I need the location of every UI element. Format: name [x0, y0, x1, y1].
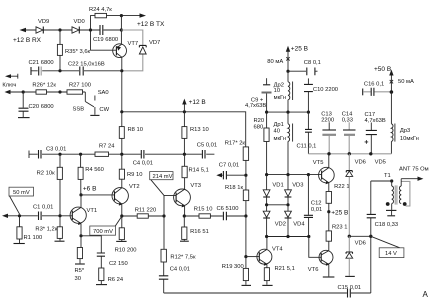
- node zener mid: [348, 235, 351, 238]
- svg-text:C2 150: C2 150: [109, 261, 128, 267]
- node VD1 top: [265, 173, 268, 176]
- svg-text:C11 0,1: C11 0,1: [297, 144, 317, 150]
- terminal ANT output: [399, 167, 429, 181]
- capacitor C7: [219, 163, 246, 180]
- svg-text:VD6: VD6: [355, 240, 366, 246]
- wire output top rail: [308, 153, 391, 155]
- svg-text:VD7: VD7: [149, 40, 160, 46]
- node +25V: [286, 70, 289, 73]
- svg-text:VT1: VT1: [87, 208, 98, 214]
- box 700 mV: [90, 216, 122, 235]
- node rail-R8bottom: [120, 153, 123, 156]
- svg-text:C1 0,01: C1 0,01: [33, 205, 53, 211]
- node +25V out: [327, 210, 330, 213]
- wire VT6 base L: [309, 237, 321, 258]
- resistor R8: [119, 112, 143, 154]
- svg-text:мкГн: мкГн: [274, 95, 287, 101]
- svg-text:VD3: VD3: [292, 183, 303, 189]
- svg-text:VT4: VT4: [272, 247, 283, 253]
- svg-text:C18 0,33: C18 0,33: [375, 222, 399, 228]
- resistor R17*: [225, 141, 249, 176]
- wire VT2 base: [81, 194, 115, 196]
- svg-text:4,7x63В: 4,7x63В: [245, 103, 266, 109]
- svg-text:R26* 12к: R26* 12к: [32, 83, 56, 89]
- wire VT3 base: [164, 195, 176, 216]
- inductor Dr1: [274, 112, 293, 175]
- node VD3 top: [286, 173, 289, 176]
- wire diode matrix top: [267, 174, 322, 176]
- node VT5 collector: [327, 152, 330, 155]
- svg-text:VT6: VT6: [308, 267, 319, 273]
- node R1: [18, 214, 21, 217]
- svg-text:R16 51: R16 51: [190, 229, 209, 235]
- node VT3 emitter row: [183, 214, 186, 217]
- svg-text:40: 40: [274, 129, 280, 135]
- node C21-C22: [58, 69, 61, 72]
- svg-text:C16 0,1: C16 0,1: [364, 81, 384, 87]
- resistor R23: [326, 212, 347, 251]
- capacitor C3: [39, 147, 67, 159]
- resistor R26*: [23, 83, 60, 95]
- svg-text:C5 0,01: C5 0,01: [197, 143, 217, 149]
- svg-text:VT5: VT5: [313, 160, 324, 166]
- svg-text:VD0: VD0: [74, 19, 85, 25]
- wire VT7 base from R35 node: [91, 30, 117, 50]
- resistor R12*: [161, 216, 196, 276]
- node rail-R8: [120, 110, 123, 113]
- resistor R19: [222, 257, 251, 286]
- svg-text:R22 1: R22 1: [334, 184, 349, 190]
- svg-text:R20: R20: [254, 118, 265, 124]
- resistor R6: [96, 268, 124, 285]
- svg-text:R23 1: R23 1: [332, 225, 347, 231]
- wire emitter to C2: [81, 236, 101, 253]
- resistor R24: [89, 7, 121, 30]
- svg-text:+25 В: +25 В: [331, 209, 348, 216]
- diode VD2: [263, 205, 286, 237]
- svg-text:C21 6800: C21 6800: [29, 60, 54, 66]
- node +6V: [79, 193, 82, 196]
- svg-text:R12* 7,5к: R12* 7,5к: [170, 255, 196, 261]
- wire VT2 emitter: [121, 204, 123, 216]
- node C10 bottom: [307, 111, 310, 114]
- node rail-R13: [183, 110, 186, 113]
- transistor VT2: [112, 184, 140, 206]
- node rail x60: [58, 153, 61, 156]
- svg-text:C4 0,01: C4 0,01: [133, 161, 153, 167]
- node C6-R18: [244, 214, 247, 217]
- svg-text:R8 10: R8 10: [128, 127, 143, 133]
- capacitor C6: [217, 206, 246, 220]
- wire VT1 collector: [80, 195, 82, 208]
- svg-text:R5*: R5*: [75, 268, 85, 274]
- resistor R22: [326, 183, 349, 212]
- svg-text:А: А: [423, 290, 429, 299]
- transistor VT1: [70, 207, 97, 225]
- svg-text:R15 10: R15 10: [194, 207, 213, 213]
- capacitor C4b: [159, 267, 190, 280]
- capacitor C1: [33, 205, 53, 221]
- node T1 primary top: [390, 179, 393, 182]
- node VT2 emitter row: [120, 214, 123, 217]
- capacitor C15: [338, 285, 362, 298]
- svg-text:R13 10: R13 10: [190, 127, 209, 133]
- capacitor C21: [29, 60, 61, 76]
- svg-text:+12 В: +12 В: [189, 99, 206, 106]
- capacitor C17: [365, 112, 386, 154]
- svg-text:R7 24: R7 24: [99, 144, 115, 150]
- svg-text:мкГн: мкГн: [274, 136, 287, 142]
- svg-text:Ключ: Ключ: [2, 83, 16, 89]
- node +50V: [390, 90, 394, 94]
- svg-text:+6 В: +6 В: [83, 186, 97, 193]
- node C7-R18: [244, 174, 247, 177]
- node C12 bottom: [307, 235, 310, 238]
- svg-text:VT2: VT2: [129, 184, 140, 190]
- node C20: [22, 90, 25, 93]
- transistor VT3: [174, 183, 201, 207]
- svg-text:C4 0,01: C4 0,01: [170, 267, 190, 273]
- wire VT1 base row: [2, 214, 72, 218]
- terminal C7 input: [216, 173, 223, 177]
- svg-text:VD2: VD2: [275, 222, 286, 228]
- capacitor C13: [321, 112, 336, 154]
- resistor R9: [119, 154, 142, 188]
- wire bias rail: [29, 151, 214, 159]
- svg-text:50 mV: 50 mV: [13, 190, 30, 196]
- svg-text:VD1: VD1: [272, 183, 283, 189]
- wire +50V feed: [374, 66, 414, 92]
- resistor R1: [14, 216, 43, 244]
- svg-text:R14 5,1: R14 5,1: [189, 168, 209, 174]
- resistor R16: [180, 216, 209, 241]
- diode VD4: [285, 205, 306, 237]
- inductor Dr3: [391, 92, 418, 154]
- svg-text:214 mV: 214 mV: [153, 174, 173, 180]
- node C18 bottom: [369, 235, 372, 238]
- node C12 top: [307, 173, 310, 176]
- wire zener to C18 column: [349, 235, 371, 237]
- svg-text:C19 6800: C19 6800: [93, 37, 118, 43]
- svg-text:Др3: Др3: [400, 128, 410, 134]
- svg-text:50 мА: 50 мА: [398, 79, 414, 85]
- resistor R13: [182, 112, 209, 154]
- capacitor C19: [93, 25, 118, 43]
- resistor R5*: [75, 236, 85, 282]
- transistor VT4: [246, 247, 284, 266]
- resistor R21: [262, 264, 295, 285]
- svg-text:R21 5,1: R21 5,1: [275, 266, 295, 272]
- node VD9-VD0 junction: [58, 28, 61, 31]
- wire C18 column to TX rail: [370, 236, 372, 293]
- resistor R4: [78, 154, 104, 195]
- wire R18 column down: [245, 216, 247, 257]
- resistor R15: [184, 207, 223, 219]
- svg-text:ANT 75 Ом: ANT 75 Ом: [399, 167, 429, 173]
- svg-text:C20 6800: C20 6800: [29, 104, 54, 110]
- svg-text:R35* 3,6к: R35* 3,6к: [65, 49, 91, 55]
- svg-text:R1 100: R1 100: [24, 235, 43, 241]
- svg-text:VD5: VD5: [375, 159, 386, 165]
- box 214 mV: [150, 172, 173, 196]
- svg-text:SSB: SSB: [73, 107, 85, 113]
- node VT1 emitter: [79, 234, 82, 237]
- svg-text:+25 В: +25 В: [291, 46, 308, 53]
- node +12TX: [120, 14, 123, 17]
- svg-text:0,01: 0,01: [311, 207, 322, 213]
- svg-text:+50 В: +50 В: [374, 66, 391, 73]
- capacitor C5: [197, 143, 217, 159]
- wire matrix bottom: [267, 236, 309, 238]
- node VT4 base: [244, 255, 247, 258]
- svg-text:+12 В TX: +12 В TX: [137, 21, 165, 28]
- zener VD7: [121, 30, 160, 71]
- resistor R14: [182, 154, 209, 189]
- terminal Kluch stub: [2, 74, 17, 89]
- svg-text:C6 5100: C6 5100: [217, 206, 239, 212]
- capacitor C18: [367, 181, 398, 236]
- svg-text:10мкГн: 10мкГн: [400, 136, 419, 142]
- capacitor C8: [288, 60, 321, 75]
- wire bottom TX rail: [164, 279, 371, 293]
- wire +12V RX input row: [20, 28, 122, 32]
- svg-text:80 мА: 80 мА: [267, 59, 283, 65]
- diode VD9: [36, 19, 49, 34]
- svg-text:Др1: Др1: [274, 122, 284, 128]
- svg-text:C22 15,0x16В: C22 15,0x16В: [68, 62, 105, 68]
- wire VT4 collector: [266, 237, 268, 250]
- node C9 bottom: [265, 111, 268, 114]
- svg-text:C8 0,1: C8 0,1: [304, 60, 321, 66]
- resistor R27: [60, 83, 91, 95]
- svg-text:R3* 1,2к: R3* 1,2к: [35, 227, 57, 233]
- svg-text:2200: 2200: [321, 117, 334, 123]
- svg-text:C3 0,01: C3 0,01: [46, 147, 66, 153]
- diode VD3: [285, 175, 304, 205]
- transistor VT5: [313, 154, 334, 184]
- resistor R11: [122, 208, 164, 219]
- inductor Dr2: [274, 71, 293, 112]
- svg-text:R24 4,7к: R24 4,7к: [89, 7, 112, 13]
- svg-text:VD9: VD9: [38, 19, 49, 25]
- capacitor C22: [60, 62, 122, 76]
- resistor R7: [95, 144, 115, 157]
- transistor VT7: [113, 41, 138, 58]
- node rail-R13bottom: [183, 153, 186, 156]
- node R11-R12: [162, 214, 165, 217]
- svg-text:680: 680: [254, 124, 264, 130]
- wire VT1 emitter: [80, 223, 82, 235]
- wire matrix middle: [267, 204, 288, 206]
- wire +12V rail: [122, 71, 246, 147]
- svg-text:R18 1к: R18 1к: [225, 185, 243, 191]
- svg-text:R2 10к: R2 10к: [37, 171, 55, 177]
- svg-text:R9 10: R9 10: [127, 172, 142, 178]
- svg-text:4,7x63В: 4,7x63В: [365, 118, 386, 124]
- svg-text:CW: CW: [99, 107, 109, 113]
- svg-text:R17* 2к: R17* 2к: [225, 141, 246, 147]
- svg-text:R10 200: R10 200: [115, 248, 137, 254]
- svg-text:C15 0,01: C15 0,01: [338, 285, 362, 291]
- zener VD6 upper: [346, 154, 366, 237]
- svg-text:VD4: VD4: [293, 222, 305, 228]
- svg-text:R19 300: R19 300: [222, 264, 244, 270]
- wire VT3 emitter: [184, 206, 186, 216]
- resistor R3*: [35, 216, 64, 241]
- node C17 bottom: [369, 152, 372, 155]
- wire +25V feed: [267, 46, 308, 72]
- wire T1 primary feed: [371, 180, 392, 182]
- resistor R18: [225, 175, 249, 216]
- diode VD1: [263, 175, 283, 205]
- svg-text:0,33: 0,33: [342, 117, 353, 123]
- capacitor C12: [304, 175, 322, 237]
- resistor R10: [115, 216, 137, 254]
- svg-text:VT7: VT7: [128, 41, 139, 47]
- node rail x80.6: [79, 153, 82, 156]
- node C19 right: [120, 28, 123, 31]
- node VT1 base: [58, 214, 61, 217]
- node R24/R35 takeoff: [89, 28, 92, 31]
- transistor VT6: [308, 250, 335, 277]
- wire +12V TX arrow: [121, 13, 165, 28]
- svg-text:R6 24: R6 24: [108, 277, 124, 283]
- svg-text:10: 10: [274, 88, 280, 94]
- svg-text:VD6: VD6: [355, 159, 366, 165]
- svg-text:C10 2200: C10 2200: [313, 87, 338, 93]
- node VD6 top: [348, 152, 351, 155]
- svg-text:VT3: VT3: [190, 183, 201, 189]
- svg-text:R27 100: R27 100: [69, 83, 91, 89]
- capacitor C11: [297, 112, 317, 154]
- wire VT7 emitter down: [121, 57, 123, 71]
- resistor R35*: [57, 30, 90, 71]
- wire VT7 collector: [120, 16, 122, 44]
- wire +25 filtered rail: [267, 111, 309, 113]
- capacitor C10: [304, 78, 338, 112]
- capacitor C2: [97, 253, 128, 268]
- svg-text:700 mV: 700 mV: [93, 229, 113, 235]
- wire key row: [5, 90, 24, 94]
- svg-text:R4 560: R4 560: [85, 167, 104, 173]
- capacitor C4: [133, 150, 153, 167]
- svg-text:R11 220: R11 220: [135, 208, 157, 214]
- zener VD6 lower: [345, 236, 366, 276]
- resistor R2: [37, 154, 63, 216]
- svg-text:C12: C12: [311, 201, 322, 207]
- capacitor C20: [18, 92, 54, 118]
- node Dr2 bottom: [286, 111, 289, 114]
- transformer T1: [384, 173, 410, 216]
- svg-text:T1: T1: [384, 173, 391, 179]
- svg-text:30: 30: [75, 276, 81, 282]
- node R26-R27: [58, 90, 61, 93]
- label +12 V arrow: [182, 99, 206, 112]
- box 50 mV: [9, 187, 34, 214]
- capacitor C9: [245, 78, 272, 112]
- callout 14V: [371, 236, 404, 257]
- svg-text:C7 0,01: C7 0,01: [219, 163, 239, 169]
- diode VD0: [72, 19, 85, 34]
- switch SA0: [73, 90, 110, 115]
- resistor R20: [254, 112, 270, 175]
- svg-text:SA0: SA0: [98, 90, 109, 96]
- capacitor C14: [342, 112, 356, 154]
- svg-text:+12 В RX: +12 В RX: [13, 37, 42, 44]
- node VT7 emitter / C22 row: [120, 69, 123, 72]
- svg-text:14 V: 14 V: [385, 251, 397, 257]
- capacitor C16: [363, 81, 392, 96]
